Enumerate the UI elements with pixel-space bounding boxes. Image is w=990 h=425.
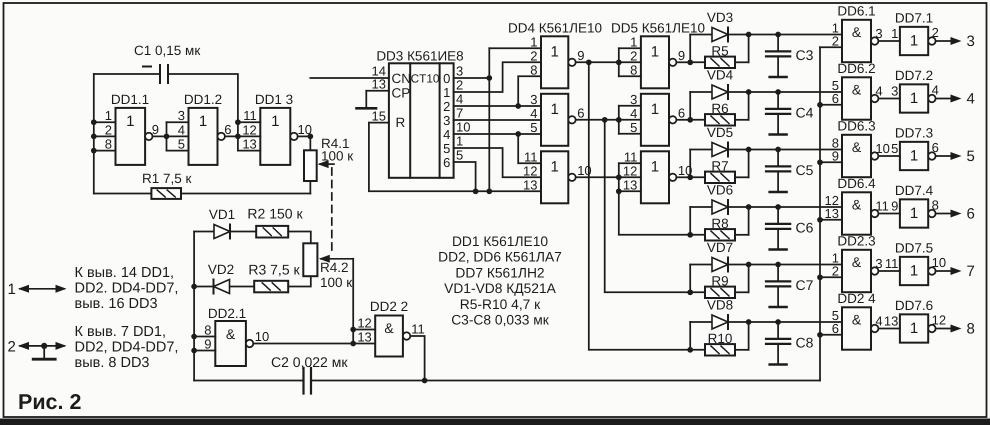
svg-text:11: 11 <box>875 198 889 213</box>
svg-text:R: R <box>396 115 406 130</box>
svg-text:DD5 К561ЛЕ10: DD5 К561ЛЕ10 <box>611 21 705 36</box>
resistor R8 <box>690 216 748 235</box>
svg-text:3: 3 <box>456 64 463 79</box>
wire DD3 out0 to DD4 pin1 <box>454 48 541 194</box>
svg-text:9: 9 <box>678 48 685 63</box>
svg-text:5: 5 <box>443 141 450 156</box>
NAND gate DD2 4 <box>832 291 876 350</box>
NAND gate DD2.1 <box>191 306 246 366</box>
wire R4.2 wiper to DD2.2 inputs <box>350 259 356 347</box>
node DD3 out 3 <box>443 106 463 129</box>
svg-text:DD4 К561ЛЕ10: DD4 К561ЛЕ10 <box>508 21 602 36</box>
svg-text:1: 1 <box>530 34 537 49</box>
svg-text:12: 12 <box>623 163 637 178</box>
svg-text:1: 1 <box>651 158 659 175</box>
svg-text:0: 0 <box>443 71 450 86</box>
wire feed row4 from DD5 pin13 net <box>619 163 690 235</box>
wire DD6.3 to DD7.3 <box>878 155 900 157</box>
resistor R5 <box>690 44 748 63</box>
output pin 4 DD2 4 <box>871 313 883 332</box>
inverter DD7.3 <box>891 126 933 171</box>
output pin 12 DD7.6 <box>928 313 946 333</box>
svg-text:4: 4 <box>967 91 975 108</box>
pin 15 DD3 <box>369 109 389 124</box>
capacitor C7 <box>766 265 814 308</box>
svg-text:CN: CN <box>392 71 412 86</box>
diode VD5 <box>690 149 748 151</box>
svg-text:1: 1 <box>456 134 463 149</box>
wire gating bus vertical <box>819 47 821 380</box>
wire R1 to R4.1 <box>181 181 310 194</box>
svg-text:1: 1 <box>550 43 558 60</box>
wire bus stub row 5 <box>817 274 842 280</box>
svg-text:1: 1 <box>199 113 207 130</box>
svg-text:13: 13 <box>523 177 537 192</box>
svg-text:11: 11 <box>411 322 425 337</box>
svg-text:13: 13 <box>357 330 371 345</box>
svg-text:1: 1 <box>910 90 918 107</box>
node row 1 stubs <box>687 32 751 66</box>
terminal 2 <box>8 339 67 356</box>
resistor R2 <box>247 206 303 222</box>
svg-text:13: 13 <box>372 77 386 92</box>
svg-text:DD1.2: DD1.2 <box>184 92 222 107</box>
wire DD3 out4 to DD4 pin5 and pin11 <box>454 131 541 163</box>
svg-text:DD2 2: DD2 2 <box>370 299 408 314</box>
svg-text:DD7.4: DD7.4 <box>895 183 934 198</box>
node DD3 out 4 <box>443 120 470 143</box>
svg-text:1: 1 <box>105 108 112 123</box>
NOR gate DD4 element 1 <box>530 34 568 88</box>
wire DD1.1 out to DD1.2 <box>153 122 189 150</box>
wire R3 to R4.2 bottom <box>288 276 311 286</box>
node terminal 2 text <box>75 324 179 371</box>
svg-text:4: 4 <box>530 106 537 121</box>
svg-text:1: 1 <box>8 281 16 298</box>
svg-text:10: 10 <box>875 141 889 156</box>
svg-text:9: 9 <box>152 122 159 137</box>
svg-text:3: 3 <box>443 113 450 128</box>
svg-text:CP: CP <box>392 86 411 101</box>
svg-text:DD7.3: DD7.3 <box>895 126 933 141</box>
svg-text:6: 6 <box>224 122 231 137</box>
node terminal 1 text <box>75 265 179 312</box>
output pin 4 DD6.2 <box>871 83 883 102</box>
svg-text:Рис. 2: Рис. 2 <box>18 390 81 414</box>
node DD3 out 0 <box>443 64 463 87</box>
svg-text:4: 4 <box>875 83 882 98</box>
svg-text:6: 6 <box>832 91 839 106</box>
node row 4 stubs <box>687 204 751 238</box>
output pin 10 DD1.3 <box>290 122 312 140</box>
wire DD4 out6 to DD5 gate2 inputs <box>576 106 641 134</box>
svg-text:8: 8 <box>204 323 211 338</box>
wiper arrow R4.1 <box>318 136 354 168</box>
svg-text:C2 0,022 мк: C2 0,022 мк <box>271 354 348 370</box>
output arrow 5 <box>936 148 975 165</box>
svg-text:3: 3 <box>891 83 898 98</box>
svg-text:1: 1 <box>271 113 279 130</box>
inverter gate DD1.1 <box>111 92 149 165</box>
output pin 9 DD5.1 <box>669 48 685 66</box>
output pin 3 DD2.3 <box>871 256 883 275</box>
svg-text:DD7.5: DD7.5 <box>895 241 933 256</box>
svg-text:4: 4 <box>932 83 939 98</box>
svg-text:&: & <box>852 24 862 40</box>
wire feed row5 from DD4 out6 <box>605 120 691 292</box>
diode VD2 <box>191 262 254 289</box>
svg-text:DD6.2: DD6.2 <box>837 61 875 76</box>
svg-text:DD2.1: DD2.1 <box>208 306 246 321</box>
svg-text:7: 7 <box>456 106 463 121</box>
svg-text:DD2, DD6 К561ЛА7: DD2, DD6 К561ЛА7 <box>438 250 562 265</box>
node row 2 stubs <box>687 89 751 123</box>
potentiometer R4.1 <box>304 136 317 181</box>
svg-text:CT10: CT10 <box>411 72 440 86</box>
potentiometer R4.2 <box>303 243 352 290</box>
svg-text:8: 8 <box>630 62 637 77</box>
svg-text:&: & <box>384 320 394 336</box>
svg-text:2: 2 <box>105 122 112 137</box>
NAND gate DD2.2 <box>353 299 408 357</box>
svg-text:12: 12 <box>357 316 371 331</box>
svg-text:C3: C3 <box>796 47 814 63</box>
svg-text:C4: C4 <box>796 105 814 121</box>
svg-text:DD6.1: DD6.1 <box>837 4 875 19</box>
svg-text:5: 5 <box>530 120 537 135</box>
output arrow 7 <box>936 263 975 280</box>
svg-text:R5-R10 4,7 к: R5-R10 4,7 к <box>460 297 541 312</box>
svg-text:C7: C7 <box>796 277 814 293</box>
svg-text:9: 9 <box>891 198 898 213</box>
svg-text:C8: C8 <box>796 335 814 351</box>
svg-text:3: 3 <box>178 108 185 123</box>
NOR gate DD4 element 3 <box>523 149 568 203</box>
wire top to C1 <box>94 73 160 75</box>
wire DD3 out3 to DD4 pin4 <box>454 119 541 121</box>
svg-text:DD1.1: DD1.1 <box>111 92 149 107</box>
wire C1 right <box>168 74 238 122</box>
NAND gate DD6.2 <box>832 61 876 120</box>
wire DD5 out6 to row2 <box>676 119 690 121</box>
svg-text:DD2, DD4-DD7,: DD2, DD4-DD7, <box>75 340 179 356</box>
svg-text:2: 2 <box>832 263 839 278</box>
inverter DD7.6 <box>884 298 933 343</box>
svg-text:С3-С8 0,033 мк: С3-С8 0,033 мк <box>451 313 550 328</box>
svg-text:DD3 К561ИЕ8: DD3 К561ИЕ8 <box>376 49 463 64</box>
NAND gate DD6.3 <box>832 119 876 178</box>
svg-text:выв. 8 DD3: выв. 8 DD3 <box>75 355 150 371</box>
svg-text:7: 7 <box>967 263 975 280</box>
svg-text:2: 2 <box>630 48 637 63</box>
output pin 10 DD5.3 <box>669 163 692 181</box>
wire DD4 out10 to DD5 gate3 inputs <box>576 163 641 194</box>
node parts list <box>438 234 562 328</box>
dashed gang link R4.1-R4.2 <box>331 168 333 256</box>
svg-text:1: 1 <box>550 158 558 175</box>
svg-text:C6: C6 <box>796 220 814 236</box>
svg-text:3: 3 <box>875 26 882 41</box>
wire DD6.2 to DD7.2 <box>878 98 900 100</box>
wire row 1 to gate <box>749 32 842 38</box>
svg-text:VD2: VD2 <box>208 262 234 277</box>
svg-text:C5: C5 <box>796 162 814 178</box>
svg-text:C1 0,15 мк: C1 0,15 мк <box>134 43 200 58</box>
svg-text:6: 6 <box>932 140 939 155</box>
diode VD8 <box>690 321 748 323</box>
svg-text:11: 11 <box>624 149 638 164</box>
svg-text:5: 5 <box>630 120 637 135</box>
svg-text:6: 6 <box>577 105 584 120</box>
wire DD4 out9 to DD5 gate1 inputs <box>576 48 641 76</box>
svg-text:1: 1 <box>443 85 450 100</box>
diode VD4 <box>690 91 748 93</box>
svg-text:6: 6 <box>967 206 975 223</box>
svg-text:13: 13 <box>825 206 839 221</box>
wiper arrow R4.2 <box>319 255 353 263</box>
wire lower left bus <box>193 232 195 381</box>
wire C1 left bus <box>93 74 95 194</box>
wire DD1.1 input pins <box>91 108 116 153</box>
svg-text:5: 5 <box>456 148 463 163</box>
svg-text:DD6.3: DD6.3 <box>837 119 875 134</box>
wire bottom rail to gating bus <box>425 380 820 382</box>
NOR gate DD5 element 2 <box>630 92 669 146</box>
output pin 3 DD6.1 <box>871 26 883 45</box>
svg-text:5: 5 <box>967 148 975 165</box>
svg-text:8: 8 <box>530 62 537 77</box>
resistor R9 <box>690 274 748 293</box>
svg-text:DD7 К561ЛН2: DD7 К561ЛН2 <box>455 265 544 280</box>
resistor R1 <box>94 193 152 195</box>
svg-text:R2 150 к: R2 150 к <box>247 206 303 222</box>
svg-text:5: 5 <box>891 141 898 156</box>
svg-text:9: 9 <box>204 337 211 352</box>
output pin 6 DD1.2 <box>218 122 232 140</box>
svg-text:1: 1 <box>910 320 918 337</box>
svg-text:3: 3 <box>875 256 882 271</box>
svg-text:2: 2 <box>832 33 839 48</box>
wire DD3 out1 to DD4 pin2 <box>454 62 541 92</box>
svg-text:&: & <box>852 139 862 155</box>
svg-text:1: 1 <box>630 34 637 49</box>
inverter gate DD1.2 <box>178 92 222 165</box>
svg-text:10: 10 <box>456 120 470 135</box>
inverter DD7.1 <box>891 11 933 56</box>
resistor R10 <box>690 331 748 350</box>
svg-text:DD2 4: DD2 4 <box>837 291 876 306</box>
svg-text:выв. 16 DD3: выв. 16 DD3 <box>75 296 158 312</box>
NAND gate DD2.3 <box>832 234 876 293</box>
counter DD3 <box>376 49 463 178</box>
svg-text:VD3: VD3 <box>707 10 733 25</box>
output pin 8 DD7.4 <box>928 198 939 218</box>
svg-text:&: & <box>852 197 862 213</box>
wire DD2.1 out to DD2.2 <box>253 343 353 345</box>
node row 6 stubs <box>687 319 751 353</box>
output arrow 6 <box>936 206 975 223</box>
svg-text:13: 13 <box>242 137 256 152</box>
svg-text:13: 13 <box>884 313 898 328</box>
node DD3 out 5 <box>443 134 463 157</box>
svg-text:100 к: 100 к <box>320 275 352 290</box>
output pin 10 DD4.3 <box>568 163 591 181</box>
wire row 5 to gate <box>749 262 842 268</box>
svg-text:12: 12 <box>523 163 537 178</box>
svg-text:1: 1 <box>910 147 918 164</box>
wire DD3 out5 to DD4 pin12 <box>454 148 541 177</box>
pin 13 DD3 <box>366 77 389 92</box>
output pin 6 DD5.2 <box>669 105 685 123</box>
capacitor C8 <box>766 322 814 365</box>
svg-text:К выв. 7 DD1,: К выв. 7 DD1, <box>75 324 167 340</box>
NAND gate DD6.1 <box>832 4 876 63</box>
output pin 10 DD7.5 <box>928 255 946 275</box>
diode VD1 <box>194 207 256 232</box>
output pin 11 DD2.2 <box>403 322 425 340</box>
svg-text:VD1-VD8 КД521А: VD1-VD8 КД521А <box>444 281 557 296</box>
wire row 4 to gate <box>749 204 842 210</box>
inverter DD7.5 <box>885 241 933 286</box>
svg-text:&: & <box>852 82 862 98</box>
output pin 11 DD6.4 <box>871 198 889 217</box>
svg-text:VD6: VD6 <box>707 183 733 198</box>
capacitor C1 <box>143 65 168 83</box>
svg-text:10: 10 <box>255 329 269 344</box>
node DD3 out 6 <box>443 148 463 171</box>
svg-text:DD1 К561ЛЕ10: DD1 К561ЛЕ10 <box>452 234 548 249</box>
svg-text:2: 2 <box>932 25 939 40</box>
svg-text:1: 1 <box>910 262 918 279</box>
svg-text:VD1: VD1 <box>209 207 235 222</box>
svg-text:8: 8 <box>967 321 975 338</box>
svg-text:100 к: 100 к <box>321 149 353 164</box>
capacitor C6 <box>766 207 814 250</box>
resistor R7 <box>690 159 748 178</box>
svg-text:3: 3 <box>967 33 975 50</box>
svg-text:5: 5 <box>178 137 185 152</box>
svg-text:&: & <box>852 312 862 328</box>
output arrow 3 <box>936 33 975 50</box>
svg-text:&: & <box>226 326 236 342</box>
output arrow 8 <box>936 321 975 338</box>
output pin 4 DD7.2 <box>928 83 939 103</box>
wire DD2 4 to DD7.6 <box>878 328 900 330</box>
capacitor C5 <box>766 150 814 193</box>
output pin 10 DD6.3 <box>871 141 890 160</box>
output pin 9 DD4.1 <box>568 48 584 66</box>
NOR gate DD4 element 2 <box>530 92 568 146</box>
svg-text:4: 4 <box>630 106 637 121</box>
svg-text:1: 1 <box>910 32 918 49</box>
svg-text:R3 7,5 к: R3 7,5 к <box>248 262 300 278</box>
svg-text:1: 1 <box>891 26 898 41</box>
wire bus stub row 4 <box>817 217 842 223</box>
svg-text:1: 1 <box>550 101 558 118</box>
wire R2 to R4.2 top <box>288 232 311 244</box>
NOR gate DD5 element 3 <box>623 149 669 203</box>
wire bus stub row 3 <box>817 159 842 165</box>
diode VD3 <box>690 34 748 36</box>
svg-text:DD7.6: DD7.6 <box>895 298 933 313</box>
capacitor C4 <box>766 92 814 135</box>
output pin 9 DD1.1 <box>145 122 159 140</box>
svg-text:DD2.3: DD2.3 <box>837 234 875 249</box>
resistor R6 <box>690 101 748 120</box>
wire row 2 to gate <box>749 89 842 95</box>
inverter DD7.4 <box>891 183 934 228</box>
svg-text:12: 12 <box>242 122 256 137</box>
svg-text:10: 10 <box>932 255 946 270</box>
svg-text:1: 1 <box>910 205 918 222</box>
svg-text:4: 4 <box>178 122 185 137</box>
inverter gate DD1.3 <box>242 92 293 165</box>
svg-text:8: 8 <box>105 137 112 152</box>
wire DD2.3 to DD7.5 <box>878 270 900 272</box>
NAND gate DD6.4 <box>825 176 877 235</box>
output pin 2 DD7.1 <box>928 25 939 45</box>
ground CP <box>357 91 377 109</box>
node row 5 stubs <box>687 262 751 296</box>
output arrow 4 <box>936 91 975 108</box>
svg-text:VD7: VD7 <box>707 240 733 255</box>
svg-text:&: & <box>852 254 862 270</box>
svg-text:6: 6 <box>832 321 839 336</box>
svg-text:1: 1 <box>651 43 659 60</box>
svg-text:R1 7,5 к: R1 7,5 к <box>142 171 192 186</box>
svg-text:12: 12 <box>932 313 946 328</box>
wire DD1.2 out to DD1.3 <box>225 119 260 150</box>
node DD3 out 2 <box>443 92 463 115</box>
wire row 3 to gate <box>749 147 842 153</box>
svg-text:VD8: VD8 <box>707 298 733 313</box>
svg-text:1: 1 <box>651 101 659 118</box>
inverter DD7.2 <box>891 68 933 113</box>
svg-text:DD7.2: DD7.2 <box>895 68 933 83</box>
output pin 6 DD7.3 <box>928 140 939 160</box>
svg-text:11: 11 <box>243 108 257 123</box>
svg-text:DD6.4: DD6.4 <box>837 176 876 191</box>
svg-text:VD5: VD5 <box>707 125 733 140</box>
wire DD5 out10 to row3 <box>676 176 690 178</box>
svg-text:DD7.1: DD7.1 <box>895 11 933 26</box>
svg-text:11: 11 <box>524 149 538 164</box>
svg-text:К выв. 14 DD1,: К выв. 14 DD1, <box>75 265 175 281</box>
wire row 6 to gate <box>749 319 842 325</box>
NOR gate DD5 element 1 <box>630 34 669 88</box>
node DD1.3 output <box>298 134 314 140</box>
output pin 10 DD2.1 <box>246 329 269 347</box>
svg-text:3: 3 <box>530 92 537 107</box>
svg-text:2: 2 <box>443 99 450 114</box>
wire DD3 out6 feedback to R <box>369 123 541 195</box>
svg-text:2: 2 <box>8 339 16 356</box>
svg-text:3: 3 <box>630 92 637 107</box>
diode VD6 <box>690 206 748 208</box>
wire DD2.2 out to bottom rail <box>410 336 427 383</box>
svg-text:15: 15 <box>372 109 386 124</box>
svg-text:2: 2 <box>530 48 537 63</box>
wire bus stub row 1 <box>820 46 842 48</box>
svg-text:DD1 3: DD1 3 <box>255 92 293 107</box>
svg-text:11: 11 <box>885 256 899 271</box>
capacitor C3 <box>766 35 814 78</box>
ground terminal 2 <box>33 346 55 359</box>
svg-text:4: 4 <box>443 127 450 142</box>
wire DD6.4 to DD7.4 <box>878 213 900 215</box>
svg-text:9: 9 <box>577 48 584 63</box>
wire feed row6 from DD4 out9 <box>589 62 690 350</box>
